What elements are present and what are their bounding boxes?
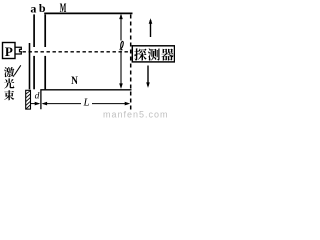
svg-text:a: a xyxy=(30,2,36,16)
svg-text:d: d xyxy=(35,92,40,102)
svg-text:b: b xyxy=(39,1,46,15)
svg-text:L: L xyxy=(82,96,89,108)
svg-text:manfen5.com: manfen5.com xyxy=(103,110,169,120)
svg-text:P: P xyxy=(5,44,13,59)
svg-text:N: N xyxy=(71,73,78,87)
svg-text:M: M xyxy=(60,1,67,15)
